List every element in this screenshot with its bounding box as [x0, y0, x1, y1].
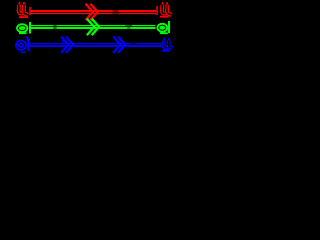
label d left (green hollow glyph): [19, 22, 32, 34]
entry stem from line end: [156, 6, 158, 15]
bar under left lower d: [21, 51, 26, 53]
ascender stem: [168, 21, 170, 33]
green quark line d: double line: [30, 25, 156, 29]
label u left (red hollow glyph): [19, 2, 31, 18]
wire: [30, 10, 156, 12]
u exit stem joining the line: [29, 7, 31, 15]
ascender stem: [27, 37, 30, 50]
label d left lower (blue hollow glyph): [17, 36, 30, 53]
dash near blue vertex: [62, 38, 63, 42]
blue quark line d->u: double line: [29, 43, 161, 47]
arrow 1 on blue line (hollow chevron): [61, 37, 73, 53]
bowl: [159, 25, 166, 30]
bar under right u: [160, 16, 169, 18]
bar under right d: [160, 32, 168, 34]
arrow on green line (hollow chevron): [87, 19, 99, 35]
label d right (green hollow glyph): [159, 21, 170, 34]
arrow on red line (hollow chevron): [86, 4, 98, 20]
red quark line u: double line: [30, 10, 156, 14]
wire: [30, 13, 156, 14]
bowl: [17, 42, 24, 49]
wire: [29, 43, 161, 44]
bar under left d: [19, 32, 27, 34]
line shading artifacts: [53, 10, 136, 45]
wire: [29, 45, 161, 47]
label u right lower (blue hollow glyph): [162, 38, 173, 52]
ascender stem: [29, 22, 31, 34]
bowl: [19, 26, 26, 31]
tick above stem: [26, 36, 28, 37]
bar under left u: [19, 16, 28, 18]
arrow 2 on blue line (hollow chevron): [113, 37, 125, 53]
wire: [30, 27, 156, 29]
bar under right lower u: [162, 50, 170, 52]
label u right (red hollow glyph): [156, 2, 172, 18]
wire: [30, 25, 156, 26]
